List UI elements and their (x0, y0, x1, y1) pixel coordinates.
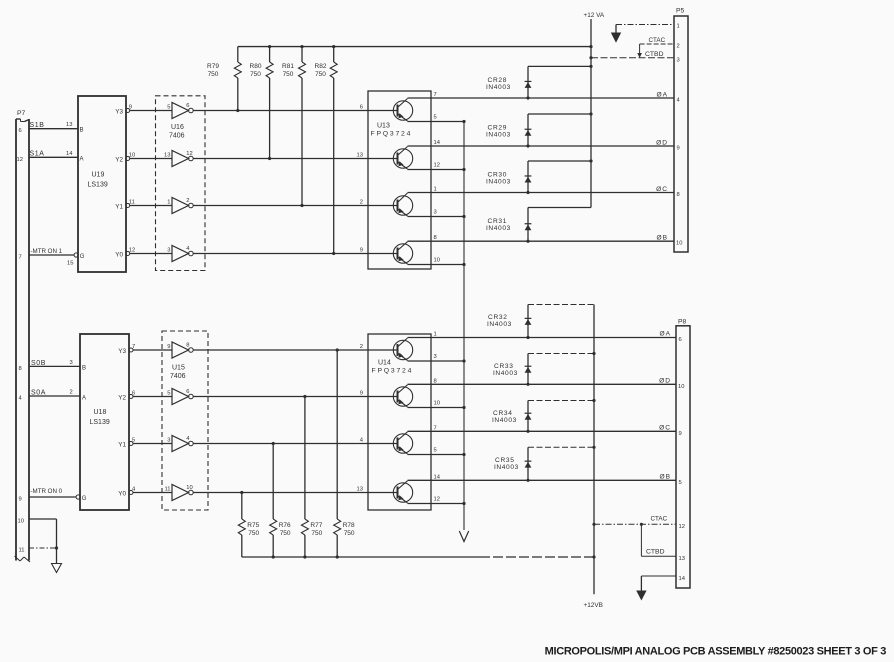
svg-text:P7: P7 (17, 110, 26, 117)
svg-text:B: B (80, 128, 84, 134)
junction R76 to row (272, 442, 275, 445)
svg-text:1: 1 (167, 200, 170, 206)
Q1 emitter pin 5 wire (408, 114, 466, 123)
svg-text:13: 13 (66, 122, 72, 128)
svg-text:9: 9 (360, 248, 363, 254)
ground symbol (52, 564, 62, 573)
svg-text:ØC: ØC (659, 425, 671, 432)
svg-text:R79: R79 (207, 63, 219, 70)
P5 pin 8 (677, 192, 680, 198)
Q3 emitter pin 3 wire (408, 209, 466, 218)
P7 pin 11 (19, 548, 25, 554)
transistor Q7 (U14) base pin 4 (360, 432, 413, 454)
diode CR31 IN4003 (486, 208, 591, 243)
svg-text:IN4003: IN4003 (487, 321, 512, 328)
inverter U15-b (5->6) (167, 389, 193, 405)
svg-text:11: 11 (19, 548, 25, 554)
svg-text:1: 1 (434, 332, 437, 338)
svg-text:8: 8 (19, 366, 22, 372)
svg-text:750: 750 (311, 530, 322, 537)
svg-text:G: G (82, 496, 87, 502)
svg-text:6: 6 (132, 391, 135, 397)
inverter pack U16 7406 box (156, 96, 206, 271)
svg-text:750: 750 (248, 530, 259, 537)
resistor R78 750 (334, 350, 355, 557)
Q8 emitter pin 12 wire (408, 496, 466, 505)
wire row 4 top (inverter to Q4 base) (193, 253, 397, 255)
svg-text:9: 9 (679, 431, 682, 437)
svg-text:CR30: CR30 (488, 172, 508, 179)
pin label 3 (U18 B) (70, 360, 73, 366)
svg-text:R81: R81 (282, 63, 294, 70)
svg-text:10: 10 (186, 485, 192, 491)
svg-text:+12VB: +12VB (584, 602, 603, 609)
junction CR35 link to +12VB bus (592, 446, 595, 449)
svg-text:CR32: CR32 (488, 314, 508, 321)
svg-text:2: 2 (360, 200, 363, 206)
pin label 14 (U19 A) (66, 151, 73, 157)
junction R81 to row 3 (300, 204, 303, 207)
connector P5 body (674, 8, 688, 253)
P5 pin 3 CTBD wire (589, 51, 679, 64)
svg-text:ØA: ØA (656, 92, 668, 99)
Q5 emitter pin 3 wire (408, 354, 466, 363)
svg-text:12: 12 (434, 162, 440, 168)
P8 pin 10 (678, 384, 684, 390)
svg-text:CR35: CR35 (495, 457, 515, 464)
svg-text:Y2: Y2 (118, 395, 126, 402)
svg-text:10: 10 (434, 257, 440, 263)
emitter common wire (459, 122, 468, 542)
svg-text:6: 6 (679, 337, 682, 343)
diode CR30 IN4003 (486, 161, 591, 194)
svg-text:11: 11 (129, 200, 135, 206)
net label ØC (P8) (659, 425, 671, 432)
junction R75 to row (240, 491, 243, 494)
resistor R81 750 (282, 47, 305, 206)
decoder U18 LS139 body (80, 334, 129, 510)
svg-text:Y3: Y3 (118, 348, 126, 355)
svg-text:5: 5 (167, 105, 170, 111)
U18 output Y3 pin 7 (118, 344, 172, 355)
P8 pin 9 (679, 431, 682, 437)
P7 pin 8 (S0B) (19, 366, 22, 372)
svg-text:3: 3 (677, 58, 680, 64)
svg-text:10: 10 (434, 400, 440, 406)
junction R82 to row 4 (332, 252, 335, 255)
svg-text:12: 12 (434, 496, 440, 502)
svg-text:IN4003: IN4003 (492, 417, 517, 424)
svg-text:Y0: Y0 (118, 491, 126, 498)
svg-text:LS139: LS139 (88, 182, 108, 189)
svg-text:3: 3 (167, 248, 170, 254)
Q7 emitter pin 5 wire (408, 447, 466, 456)
pin label 2 (U18 A) (70, 390, 73, 396)
P8 pin 6 (679, 337, 682, 343)
svg-text:U16: U16 (171, 124, 184, 131)
svg-text:750: 750 (208, 71, 219, 78)
svg-text:CR33: CR33 (494, 363, 514, 370)
resistor R80 750 (250, 47, 274, 159)
svg-text:8: 8 (186, 342, 189, 348)
junction R78 to row (336, 348, 339, 351)
svg-text:14: 14 (434, 140, 441, 146)
transistor Q8 (U14) base pin 13 (357, 481, 413, 503)
svg-text:6: 6 (360, 105, 363, 111)
diode CR28 IN4003 (486, 66, 591, 99)
svg-text:6: 6 (186, 103, 189, 109)
svg-text:5: 5 (679, 480, 682, 486)
svg-text:3: 3 (434, 209, 437, 215)
U19 output Y3 pin 9 (115, 105, 172, 116)
U19 output Y0 pin 12 (115, 248, 172, 259)
pin label 15 (U19 G) (67, 261, 73, 267)
svg-text:Y3: Y3 (115, 109, 123, 116)
diode CR33 IN4003 (493, 354, 594, 386)
wire row 2 top (inverter to Q2 base) (193, 158, 397, 160)
svg-text:CR34: CR34 (493, 410, 513, 417)
svg-text:R78: R78 (343, 522, 355, 529)
inverter U15-a (9->8) (167, 342, 193, 358)
junction CR33 link to +12VB bus (592, 352, 595, 355)
svg-text:-MTR ON 1: -MTR ON 1 (31, 248, 63, 255)
connector P7 body (15, 110, 31, 562)
svg-text:8: 8 (677, 192, 680, 198)
svg-text:5: 5 (167, 391, 170, 397)
svg-text:ØB: ØB (656, 235, 668, 242)
svg-text:G: G (80, 254, 85, 260)
svg-text:IN4003: IN4003 (493, 370, 518, 377)
svg-text:-MTR ON 0: -MTR ON 0 (31, 488, 63, 495)
svg-text:IN4003: IN4003 (486, 84, 511, 91)
bottom bus wire (+12VB) (242, 555, 596, 558)
wire row 3 top (inverter to Q3 base) (193, 205, 397, 207)
svg-text:12: 12 (129, 248, 135, 254)
pin label 13 (U19 B) (66, 122, 72, 128)
inverter U15-c (3->4) (167, 436, 193, 452)
inverter U16-a (5->6) (167, 103, 193, 119)
svg-text:10: 10 (18, 519, 24, 525)
svg-text:LS139: LS139 (90, 419, 110, 426)
transistor Q1 (U13) base pin 6 (360, 99, 413, 122)
junction CR30 link to +12VA bus (589, 159, 592, 162)
svg-text:10: 10 (676, 241, 682, 247)
P5 pin 10 (676, 241, 682, 247)
U18 output Y2 pin 6 (118, 391, 172, 402)
svg-text:2: 2 (360, 344, 363, 350)
svg-text:S0A: S0A (31, 389, 46, 396)
Q5 collector pin 1 wire (408, 332, 677, 338)
svg-text:12: 12 (186, 151, 192, 157)
svg-text:S1A: S1A (30, 151, 45, 158)
resistor R79 750 (207, 47, 241, 111)
svg-text:14: 14 (66, 151, 73, 157)
wire row 1 top (inverter to Q1 base) (193, 110, 397, 112)
svg-text:2: 2 (186, 198, 189, 204)
net label ØA (P5) (656, 92, 668, 99)
U18 output Y1 pin 5 (118, 438, 172, 449)
svg-text:R77: R77 (310, 522, 322, 529)
U18 G inversion bubble (76, 495, 80, 499)
svg-text:R80: R80 (250, 63, 262, 70)
P7 pin 4 (S0A) (19, 396, 23, 402)
svg-text:12: 12 (679, 524, 685, 530)
P5 pin 1 wire (+12VA in) (611, 24, 680, 43)
svg-text:5: 5 (434, 447, 437, 453)
wire P7 pin 10 to ground (29, 519, 57, 564)
svg-text:7: 7 (434, 92, 437, 98)
svg-text:U14: U14 (378, 360, 391, 367)
junction R81 to top bus (300, 45, 303, 48)
svg-text:3: 3 (434, 354, 437, 360)
svg-text:7: 7 (132, 344, 135, 350)
svg-text:Y2: Y2 (115, 157, 123, 164)
svg-text:750: 750 (344, 530, 355, 537)
+12VA power bus (584, 12, 605, 208)
svg-text:CR31: CR31 (488, 218, 508, 225)
decoder U19 LS139 body (78, 96, 126, 272)
junction CR28 link to +12VA bus (589, 65, 592, 68)
Q1 collector pin 7 wire (408, 92, 675, 98)
junction R77 to row (303, 395, 306, 398)
Q2 emitter pin 12 wire (408, 162, 466, 171)
diode CR35 IN4003 (494, 447, 594, 482)
svg-text:U19: U19 (92, 172, 105, 179)
P7 pin 6 (S1B) (19, 128, 22, 134)
svg-text:9: 9 (167, 344, 170, 350)
resistor R82 750 (315, 47, 338, 254)
svg-text:7: 7 (19, 255, 22, 261)
svg-text:A: A (82, 395, 86, 401)
inverter U16-b (13->12) (164, 151, 193, 167)
transistor Q3 (U13) base pin 2 (360, 193, 413, 216)
svg-text:8: 8 (434, 235, 437, 241)
svg-text:U13: U13 (377, 123, 390, 130)
U19 output Y1 pin 11 (115, 200, 172, 211)
P7 pin 12 (S1A) (17, 157, 23, 163)
wire S1B (29, 122, 78, 129)
P8 pin 13 CTBD wire (640, 523, 685, 562)
inverter pack U15 7406 box (162, 331, 208, 510)
junction top bus to +12VA (589, 45, 592, 48)
wire row 3 bottom (inverter to Q7 base) (193, 443, 397, 445)
svg-text:ØB: ØB (659, 474, 671, 481)
svg-text:9: 9 (677, 146, 680, 152)
svg-text:Y0: Y0 (115, 252, 123, 259)
svg-text:750: 750 (315, 71, 326, 78)
svg-text:CTBD: CTBD (646, 549, 665, 556)
svg-text:9: 9 (19, 497, 22, 503)
Q2 collector pin 14 wire (408, 140, 675, 146)
U18 output Y0 pin 4 (118, 487, 172, 498)
svg-text:CTAC: CTAC (649, 37, 666, 44)
resistor R76 750 (270, 444, 291, 558)
P8 pin 14 wire (+12VB in) (636, 576, 686, 601)
svg-text:14: 14 (434, 474, 441, 480)
U19 G inversion bubble (74, 253, 78, 257)
wire S0A (29, 389, 80, 396)
transistor Q5 (U14) base pin 2 (360, 338, 413, 361)
svg-text:13: 13 (357, 487, 363, 493)
P5 pin 2 CTAC wire (637, 37, 679, 58)
wire -MTR ON 0 (29, 488, 76, 497)
svg-text:S0B: S0B (31, 360, 46, 367)
junction R78 to bottom bus (336, 555, 339, 558)
net label ØB (P5) (656, 235, 668, 242)
svg-text:P5: P5 (676, 8, 685, 15)
svg-text:10: 10 (678, 384, 684, 390)
svg-text:Y1: Y1 (115, 204, 123, 211)
Q8 collector pin 14 wire (408, 474, 677, 480)
svg-text:CTBD: CTBD (645, 51, 664, 58)
svg-text:5: 5 (132, 438, 135, 444)
svg-text:IN4003: IN4003 (494, 464, 519, 471)
inverter U16-d (3->4) (167, 246, 193, 262)
svg-text:3: 3 (70, 360, 73, 366)
svg-text:7: 7 (434, 425, 437, 431)
svg-text:750: 750 (280, 530, 291, 537)
svg-text:U18: U18 (94, 409, 107, 416)
junction CR29 link to +12VA bus (589, 112, 592, 115)
transistor Q2 (U13) base pin 13 (357, 147, 413, 170)
svg-text:FPQ3724: FPQ3724 (371, 131, 413, 138)
svg-text:7406: 7406 (169, 133, 185, 140)
P7 pin 9 (-MTR ON 0) (19, 497, 22, 503)
wire row 2 bottom (inverter to Q6 base) (193, 396, 397, 398)
svg-text:13: 13 (164, 153, 170, 159)
Q6 emitter pin 10 wire (408, 400, 466, 409)
inverter U16-c (1->2) (167, 198, 193, 214)
junction R76 to bottom bus (272, 555, 275, 558)
transistor Q6 (U14) base pin 9 (360, 385, 413, 407)
wire row 1 bottom (inverter to Q5 base) (193, 349, 397, 351)
svg-text:14: 14 (679, 576, 686, 582)
P8 pin 5 (679, 480, 682, 486)
svg-text:CTAC: CTAC (651, 516, 668, 523)
junction R77 to bottom bus (303, 555, 306, 558)
wire S1A (29, 151, 78, 158)
svg-text:IN4003: IN4003 (486, 132, 511, 139)
P8 pin 12 CTAC wire (592, 516, 685, 531)
svg-text:13: 13 (357, 153, 363, 159)
P5 pin 9 (677, 146, 680, 152)
net label ØA (P8) (659, 331, 671, 338)
wire -MTR ON 1 (29, 248, 74, 255)
resistor R77 750 (301, 397, 322, 558)
svg-text:R76: R76 (279, 522, 291, 529)
svg-text:11: 11 (164, 487, 170, 493)
wire S0B (29, 360, 80, 367)
svg-text:1: 1 (434, 187, 437, 193)
transistor Q4 (U13) base pin 9 (360, 242, 413, 264)
svg-text:3: 3 (167, 438, 170, 444)
inverter U15-d (11->10) (164, 485, 193, 501)
svg-text:9: 9 (129, 105, 132, 111)
svg-text:10: 10 (129, 153, 135, 159)
svg-text:750: 750 (250, 71, 261, 78)
svg-text:8: 8 (434, 378, 437, 384)
Q4 emitter pin 10 wire (408, 257, 466, 266)
net label ØB (P8) (659, 474, 671, 481)
svg-text:Y1: Y1 (118, 442, 126, 449)
net label ØD (P5) (656, 140, 668, 147)
junction R80 to top bus (268, 45, 271, 48)
diode CR34 IN4003 (492, 401, 594, 433)
svg-text:A: A (80, 156, 84, 162)
svg-text:2: 2 (70, 390, 73, 396)
P5 pin 4 (677, 98, 681, 104)
title text (545, 646, 887, 658)
svg-text:CR29: CR29 (488, 125, 508, 132)
svg-text:12: 12 (17, 157, 23, 163)
svg-text:5: 5 (434, 114, 437, 120)
net label ØC (P5) (656, 186, 668, 193)
svg-text:1: 1 (677, 24, 680, 30)
svg-text:IN4003: IN4003 (486, 179, 511, 186)
transistor array U13 FPQ3724 box (368, 91, 431, 269)
wire P7 pin 11 to ground (29, 546, 58, 549)
svg-text:2: 2 (677, 44, 680, 50)
svg-text:MICROPOLIS/MPI ANALOG PCB ASSE: MICROPOLIS/MPI ANALOG PCB ASSEMBLY #8250… (545, 646, 887, 658)
svg-text:6: 6 (19, 128, 22, 134)
transistor array U14 FPQ3724 box (368, 334, 431, 510)
P7 pin 7 (-MTR ON 1) (19, 255, 22, 261)
svg-text:ØD: ØD (659, 378, 671, 385)
connector P8 body (676, 319, 690, 589)
svg-text:B: B (82, 366, 86, 372)
svg-text:15: 15 (67, 261, 73, 267)
svg-text:9: 9 (360, 391, 363, 397)
diode CR32 IN4003 (487, 305, 594, 340)
svg-text:S1B: S1B (30, 122, 45, 129)
P7 pin 10 (18, 519, 24, 525)
svg-text:ØC: ØC (656, 186, 668, 193)
svg-text:CR28: CR28 (488, 77, 508, 84)
svg-text:ØA: ØA (659, 331, 671, 338)
diode CR29 IN4003 (486, 114, 591, 148)
junction R79 to row 1 (236, 109, 239, 112)
junction R82 to top bus (332, 45, 335, 48)
Q4 collector pin 8 wire (408, 235, 675, 241)
svg-text:6: 6 (186, 389, 189, 395)
svg-text:7406: 7406 (170, 373, 186, 380)
junction R80 to row 2 (268, 157, 271, 160)
svg-text:13: 13 (679, 556, 685, 562)
svg-text:U15: U15 (172, 365, 185, 372)
Q7 collector pin 7 wire (408, 425, 677, 431)
Q6 collector pin 8 wire (408, 378, 677, 384)
svg-text:ØD: ØD (656, 140, 668, 147)
+12VB power bus (584, 305, 603, 610)
U19 output Y2 pin 10 (115, 153, 172, 164)
svg-text:IN4003: IN4003 (486, 225, 511, 232)
svg-text:R82: R82 (315, 63, 327, 70)
svg-text:P8: P8 (678, 319, 687, 326)
net label ØD (P8) (659, 378, 671, 385)
svg-text:750: 750 (283, 71, 294, 78)
resistor R75 750 (238, 493, 259, 558)
svg-text:FPQ3724: FPQ3724 (372, 368, 414, 375)
junction CR34 link to +12VB bus (592, 399, 595, 402)
svg-text:+12 VA: +12 VA (584, 12, 605, 19)
wire row 4 bottom (inverter to Q8 base) (193, 492, 397, 494)
+12VA top bus wire (238, 46, 591, 48)
svg-text:R75: R75 (247, 522, 259, 529)
Q3 collector pin 1 wire (408, 187, 675, 193)
